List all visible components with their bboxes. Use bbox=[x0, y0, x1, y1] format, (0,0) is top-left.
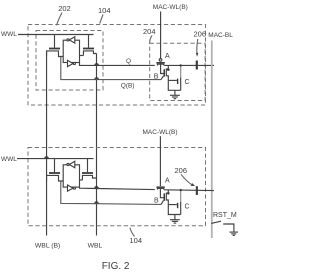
transistor C (lower) bbox=[168, 189, 182, 215]
ground (lower MAC) bbox=[170, 215, 180, 224]
svg-text:C: C bbox=[185, 204, 190, 211]
transistor B (lower) bbox=[160, 188, 169, 205]
svg-text:MAC-WL(B): MAC-WL(B) bbox=[143, 129, 178, 136]
wire MAC-BL vertical bbox=[211, 41, 213, 239]
inner dashed box 202 bbox=[36, 31, 103, 91]
svg-text:C: C bbox=[185, 79, 190, 86]
switch RST_M bbox=[211, 212, 237, 232]
element 206 bar (lower) bbox=[196, 186, 198, 195]
transistor T4 right access (lower cell) bbox=[80, 159, 97, 180]
wire WBL(B) column bbox=[46, 51, 48, 236]
label 104 (lower) bbox=[130, 228, 143, 245]
outer dashed box 104 (top) bbox=[28, 25, 206, 106]
svg-text:206: 206 bbox=[175, 166, 188, 175]
transistor A (lower, pass on Q' line) bbox=[156, 186, 164, 189]
inverter INV1 (points left) bbox=[67, 37, 75, 43]
svg-text:WWL: WWL bbox=[1, 31, 17, 38]
label 206 (lower) with arrow bbox=[175, 166, 196, 186]
wire MAC-WL(B) vertical (lower) bbox=[159, 136, 161, 186]
node Q' dot bbox=[95, 187, 98, 189]
inverter INV3 (points left) bbox=[67, 161, 75, 167]
inverter INV4 (points right) bbox=[68, 185, 76, 191]
svg-text:104: 104 bbox=[130, 236, 143, 245]
wire Q (top) bbox=[80, 63, 155, 66]
wire MAC-WL(B) vertical (top) bbox=[160, 12, 162, 60]
wire Q right segment to MAC-BL bbox=[164, 64, 214, 66]
label 204 bbox=[143, 27, 156, 43]
transistor T3 left access (lower cell) bbox=[47, 159, 64, 181]
svg-text:202: 202 bbox=[58, 4, 71, 13]
transistor A (top, PMOS pass on Q line) bbox=[156, 59, 164, 66]
wire Q' (lower) bbox=[80, 187, 155, 190]
wire B line (lower) bbox=[61, 181, 161, 204]
svg-text:204: 204 bbox=[143, 27, 156, 36]
transistor B (top) bbox=[161, 64, 170, 81]
node Q(B) dot bbox=[95, 78, 98, 80]
outer dashed box 104 (lower) bbox=[28, 148, 206, 226]
label 202 bbox=[57, 4, 71, 25]
transistor C (top) bbox=[168, 64, 182, 90]
inverter latch loop (lower cell) bbox=[63, 165, 79, 187]
inverter INV2 (points right) bbox=[68, 60, 76, 66]
svg-text:A: A bbox=[165, 53, 170, 60]
svg-text:MAC-WL(B): MAC-WL(B) bbox=[153, 4, 188, 11]
svg-text:B: B bbox=[154, 197, 159, 204]
label 206 (top) with arrow bbox=[194, 30, 207, 57]
svg-text:Q: Q bbox=[126, 58, 131, 65]
svg-text:Q(B): Q(B) bbox=[121, 82, 135, 89]
svg-text:RST_M: RST_M bbox=[213, 212, 237, 219]
wire source bus to ground (top MAC) bbox=[168, 81, 180, 91]
element 206 bar (top) bbox=[196, 61, 198, 70]
transistor T1 left access (top cell) bbox=[47, 35, 64, 57]
wire WBL column bbox=[96, 54, 98, 236]
wire WWL (lower) bbox=[17, 158, 94, 160]
transistor T2 right access (top cell) bbox=[80, 35, 97, 56]
svg-text:104: 104 bbox=[98, 6, 111, 15]
svg-text:FIG. 2: FIG. 2 bbox=[102, 261, 130, 272]
ground (top MAC) bbox=[170, 90, 180, 98]
inverter latch loop (top cell) bbox=[63, 40, 79, 62]
svg-text:WWL: WWL bbox=[1, 156, 17, 163]
node B dot bbox=[95, 202, 98, 204]
svg-text:B: B bbox=[154, 74, 159, 81]
wire source bus to ground (lower MAC) bbox=[168, 205, 180, 215]
wire Q(B) (top) bbox=[61, 57, 161, 80]
svg-text:MAC-BL: MAC-BL bbox=[208, 32, 233, 39]
svg-text:206: 206 bbox=[194, 30, 207, 39]
svg-text:A: A bbox=[165, 178, 170, 185]
svg-text:WBL (B): WBL (B) bbox=[35, 243, 60, 250]
node Q dot bbox=[95, 64, 98, 66]
dashed box 204 bbox=[150, 43, 205, 100]
label 104 (top) bbox=[98, 6, 111, 24]
wire WWL (top) bbox=[18, 34, 94, 36]
svg-text:WBL: WBL bbox=[88, 243, 103, 250]
wire Q' right segment to MAC-BL bbox=[164, 189, 214, 192]
ground (RST_M) bbox=[230, 232, 239, 235]
node WWL/WBL(B) dot bbox=[45, 157, 48, 159]
